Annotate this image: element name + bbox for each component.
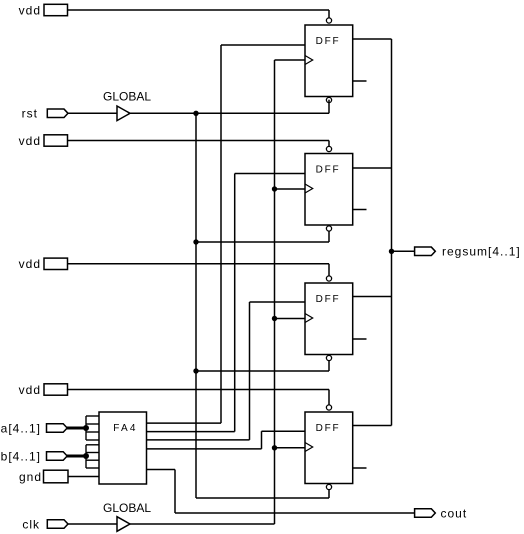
port regsum[4..1] xyxy=(415,247,436,256)
port vdd (#3) xyxy=(44,258,68,269)
bus a[4..1] thick segment xyxy=(67,427,86,430)
wire DFF2 Q output xyxy=(353,167,392,169)
svg-text:GLOBAL: GLOBAL xyxy=(103,90,151,104)
wire clk to DFF2 clock xyxy=(275,188,306,190)
wire DFF3 Q output xyxy=(353,296,392,298)
DFF U2 clock triangle xyxy=(305,56,313,65)
flip-flop DFF U2 body xyxy=(305,25,353,97)
svg-text:vdd: vdd xyxy=(19,3,41,17)
junction clk to DFF3 xyxy=(272,316,277,321)
port a[4..1] xyxy=(47,424,68,433)
FA4 pin a4 stub xyxy=(86,415,99,417)
junction b bus xyxy=(83,453,89,459)
wire clk to DFF4 clock xyxy=(275,447,306,449)
DFF U4 clock triangle xyxy=(305,314,313,323)
port b[4..1] xyxy=(47,452,68,461)
wire regsum vertical bus xyxy=(391,39,393,426)
svg-text:DFF: DFF xyxy=(316,423,341,434)
FA4 pin a3 stub xyxy=(86,423,99,425)
wire sum2 riser xyxy=(249,302,251,440)
wire DFF1 Q output xyxy=(353,38,392,40)
DFF U4 PRN bubble xyxy=(326,276,331,281)
flip-flop DFF U4 body xyxy=(305,283,353,355)
wire sum3 riser xyxy=(234,174,236,432)
wire CLRN2 horizontal xyxy=(196,241,329,243)
wire vdd3 horizontal xyxy=(68,263,330,265)
wire sum2 from FA4 xyxy=(147,439,250,441)
buffer GLOBAL (rst) xyxy=(117,106,130,121)
wire sum4 riser xyxy=(220,45,222,423)
bus b[4..1] thick segment xyxy=(67,455,86,458)
FA4 pin b2 stub xyxy=(86,459,99,461)
wire sum4 from FA4 xyxy=(147,422,222,424)
port clk xyxy=(47,520,68,529)
DFF U2 unused output stub xyxy=(353,80,367,82)
svg-text:GLOBAL: GLOBAL xyxy=(103,501,151,515)
svg-text:gnd: gnd xyxy=(19,470,42,484)
wire rst port to buffer xyxy=(68,112,117,114)
wire vdd2 drop to PRN xyxy=(328,141,330,147)
wire clk to DFF3 clock xyxy=(275,318,306,320)
FA4 pin b4 stub xyxy=(86,444,99,446)
wire clk vertical distribution xyxy=(274,60,276,524)
wire sum3 from FA4 xyxy=(147,431,235,433)
wire vdd1 drop to PRN xyxy=(328,10,330,18)
svg-text:DFF: DFF xyxy=(316,294,341,305)
wire vdd4 horizontal xyxy=(68,389,330,391)
wire CLRN4 riser to bubble xyxy=(328,490,330,498)
wire cout horizontal xyxy=(175,512,415,514)
DFF U4 CLRN bubble xyxy=(326,355,331,360)
wire sum2 to DFF3 D xyxy=(250,301,306,303)
DFF U3 CLRN bubble xyxy=(326,226,331,231)
port rst xyxy=(47,109,68,118)
wire CLRN4 horizontal xyxy=(196,497,329,499)
port gnd xyxy=(44,470,69,483)
junction a bus xyxy=(83,425,89,431)
wire sum3 to DFF2 D xyxy=(235,173,305,175)
DFF U3 clock triangle xyxy=(305,184,313,193)
port vdd (#1) xyxy=(44,4,68,15)
svg-text:rst: rst xyxy=(22,107,38,121)
DFF U3 PRN bubble xyxy=(326,146,331,151)
wire cout drop xyxy=(174,470,176,514)
FA4 pin a2 stub xyxy=(86,431,99,433)
svg-text:clk: clk xyxy=(22,517,40,531)
wire sum1 to DFF4 D xyxy=(262,430,306,432)
wire CLRN2 riser to bubble xyxy=(328,231,330,242)
junction rst to CLRN2 xyxy=(193,239,198,244)
wire CLRN3 horizontal xyxy=(196,370,329,372)
component FA4 U1 xyxy=(99,412,147,484)
DFF U4 unused output stub xyxy=(353,338,367,340)
DFF U5 clock triangle xyxy=(305,443,313,452)
svg-text:b[4..1]: b[4..1] xyxy=(1,449,41,463)
FA4 pin b1 stub xyxy=(86,467,99,469)
port vdd (#4) xyxy=(44,384,68,395)
wire sum1 from FA4 xyxy=(147,448,262,450)
svg-text:regsum[4..1]: regsum[4..1] xyxy=(442,245,521,259)
FA4 a-pins comb vertical xyxy=(85,416,87,440)
wire to regsum port xyxy=(392,250,415,252)
svg-text:DFF: DFF xyxy=(316,165,341,176)
wire vdd2 horizontal xyxy=(68,140,330,142)
svg-text:cout: cout xyxy=(441,506,468,520)
wire CLRN3 riser to bubble xyxy=(328,361,330,371)
wire rst vertical distribution xyxy=(195,113,197,498)
svg-text:vdd: vdd xyxy=(19,134,41,148)
wire sum1 riser xyxy=(261,431,263,449)
DFF U5 unused output stub xyxy=(353,467,367,469)
DFF U5 CLRN bubble xyxy=(326,484,331,489)
wire vdd4 drop to PRN xyxy=(328,390,330,405)
junction clk to DFF4 xyxy=(272,445,277,450)
wire FA4 cout out xyxy=(147,469,176,471)
wire sum4 to DFF1 D xyxy=(221,44,305,46)
junction rst vertical tap xyxy=(193,111,198,116)
port vdd (#2) xyxy=(44,135,68,146)
FA4 pin a1 stub xyxy=(86,439,99,441)
FA4 pin b3 stub xyxy=(86,452,99,454)
DFF U3 unused output stub xyxy=(353,209,367,211)
DFF U5 PRN bubble xyxy=(326,405,331,410)
wire rst up to CLRN1 bubble xyxy=(328,100,330,114)
wire clk buffer output xyxy=(130,523,275,525)
DFF U2 PRN bubble xyxy=(326,18,331,23)
svg-text:DFF: DFF xyxy=(316,36,341,47)
flip-flop DFF U5 body xyxy=(305,412,353,484)
svg-text:vdd: vdd xyxy=(19,383,41,397)
wire rst buffer output xyxy=(130,112,329,114)
svg-text:FA4: FA4 xyxy=(113,423,137,434)
junction rst to CLRN3 xyxy=(193,368,198,373)
junction regsum tap xyxy=(389,249,394,254)
wire vdd3 drop to PRN xyxy=(328,264,330,276)
port cout xyxy=(415,509,436,518)
svg-text:vdd: vdd xyxy=(19,257,41,271)
wire clk to DFF1 clock xyxy=(275,59,306,61)
wire gnd to FA4 cin xyxy=(68,476,99,478)
junction clk to DFF2 xyxy=(272,186,277,191)
DFF U2 CLRN bubble xyxy=(326,97,331,102)
wire clk port to buffer xyxy=(68,523,117,525)
FA4 b-pins comb vertical xyxy=(85,445,87,468)
flip-flop DFF U3 body xyxy=(305,154,353,226)
wire DFF4 Q output xyxy=(353,425,392,427)
wire vdd1 horizontal xyxy=(68,9,330,11)
svg-text:a[4..1]: a[4..1] xyxy=(1,421,41,435)
buffer GLOBAL (clk) xyxy=(117,517,130,532)
